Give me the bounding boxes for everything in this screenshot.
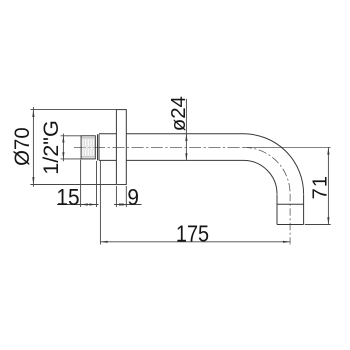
- end cap bottom outlet: [277, 224, 304, 226]
- arrow 1/2G top: [62, 136, 64, 143]
- centerline horizontal axis: [74, 146, 250, 148]
- arrow 175 right: [283, 241, 290, 243]
- svg-text:ø24: ø24: [168, 96, 190, 131]
- dim o24 leader line: [185, 99, 187, 161]
- bend outer wall: [244, 134, 304, 194]
- arrow 9 right: [119, 203, 126, 205]
- tube section between shoulder and flange: [99, 134, 116, 161]
- svg-text:71: 71: [310, 175, 332, 200]
- arrow 1/2G bottom: [62, 152, 64, 159]
- bend inner wall: [244, 160, 278, 194]
- arrow o70 top: [32, 110, 34, 117]
- arrow 15 right: [89, 203, 96, 205]
- arrow 71 bottom: [327, 217, 329, 224]
- svg-text:1/2"G: 1/2"G: [39, 120, 63, 175]
- svg-text:9: 9: [127, 184, 139, 210]
- threaded nipple 1/2"G body: [81, 136, 95, 159]
- dim 71 line and extensions: [305, 147, 331, 224]
- spout tube horizontal walls: [126, 134, 243, 161]
- arrow o70 bottom: [32, 177, 34, 184]
- arrow 71 top: [327, 147, 329, 154]
- arrow 9 left: [116, 203, 123, 205]
- nipple thread crest top band: [82, 137, 95, 139]
- dim 175 line and left extension: [100, 161, 290, 245]
- svg-text:175: 175: [176, 220, 209, 247]
- arrow 175 left: [100, 241, 107, 243]
- svg-text:15: 15: [56, 184, 79, 210]
- end cap joint line: [277, 203, 304, 205]
- shoulder ring double line: [98, 134, 100, 160]
- nipple thread hatch: [83, 136, 94, 158]
- downtube walls: [277, 194, 304, 224]
- centerline vertical axis of spout outlet: [289, 194, 291, 245]
- dim o70 line and extensions: [30, 107, 126, 187]
- dim 1/2G line and extensions: [61, 134, 82, 162]
- centerline arc through bend: [244, 147, 291, 193]
- arrow 15 left: [81, 203, 88, 205]
- nipple thread crest bottom band: [82, 156, 95, 158]
- dim 15 line and extensions: [57, 160, 99, 207]
- arrow o24 top: [185, 134, 187, 141]
- wall flange o70: [116, 110, 126, 185]
- arrow o24 bottom: [185, 153, 187, 160]
- svg-text:Ø70: Ø70: [11, 127, 34, 165]
- dim 9 line and extensions: [114, 186, 142, 207]
- centerline horizontal solid tail toward 71 dim: [250, 146, 331, 148]
